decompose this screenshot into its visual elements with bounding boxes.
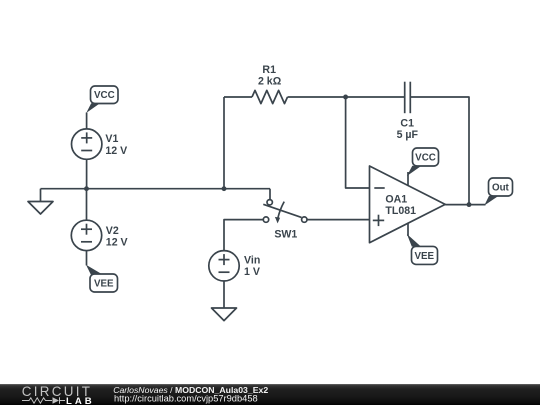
wire switch top feed [269,189,271,200]
wire left throw to Vin [224,220,263,251]
flag VCC (at V1) [86,86,118,113]
op-amp OA1 [370,166,446,243]
svg-text:2 kΩ: 2 kΩ [258,75,282,87]
svg-text:V2: V2 [106,225,119,237]
wire common throw to op-amp [307,219,370,221]
svg-text:R1: R1 [262,64,276,76]
wire V2 to VEE [86,251,88,266]
svg-text:TL081: TL081 [385,205,416,217]
wire R1 to junction [288,96,346,98]
wire C1 to output branch [410,97,469,205]
node junction output/C1 [467,202,472,207]
node junction feedback tap [222,186,227,191]
resistor R1 [252,90,288,103]
svg-text:12 V: 12 V [106,237,128,249]
wire junction to C1 [346,96,405,98]
wire top left lead [224,96,252,98]
svg-text:5 µF: 5 µF [397,129,419,141]
flag VEE (at V2) [86,265,118,292]
voltage source Vin [209,251,239,281]
svg-text:VCC: VCC [415,152,436,163]
ground (left) [28,189,53,214]
svg-text:Vin: Vin [244,255,260,267]
svg-text:VCC: VCC [94,90,115,101]
wire node up to R1 [223,97,225,189]
svg-text:http://circuitlab.com/cvjp57r9: http://circuitlab.com/cvjp57r9db458 [114,394,258,404]
svg-text:C1: C1 [400,117,414,129]
wire main horizontal net [41,188,271,190]
footer bar [0,384,540,405]
svg-text:Out: Out [492,183,510,194]
capacitor C1 [405,82,411,114]
wire op-amp output [445,204,485,206]
flag Out [484,178,512,206]
svg-text:1 V: 1 V [244,266,260,278]
wire Vin to ground [223,281,225,308]
svg-text:VEE: VEE [414,251,434,262]
wire node to V2 [86,189,88,221]
wire feedback down to inverting input [346,97,370,188]
flag VEE (op-amp) [407,234,438,264]
svg-text:12 V: 12 V [105,145,127,157]
voltage source V2 [71,220,101,250]
voltage source V1 [72,129,102,159]
svg-text:LAB: LAB [66,396,95,405]
node junction at V1/V2 [84,186,89,191]
logo squiggle [22,397,65,403]
wire op-amp VEE stub [407,223,409,236]
svg-text:VEE: VEE [94,279,114,290]
svg-text:OA1: OA1 [385,193,407,205]
svg-text:SW1: SW1 [274,228,297,240]
wire V1 to node [86,159,88,189]
wire VCC to V1 [86,113,88,130]
ground (Vin) [212,308,237,321]
node junction R1/C1/inverting branch [343,95,348,100]
flag VCC (op-amp) [407,148,439,176]
wire op-amp VCC stub [407,172,409,186]
svg-text:V1: V1 [105,133,118,145]
switch SW1 [263,200,307,224]
